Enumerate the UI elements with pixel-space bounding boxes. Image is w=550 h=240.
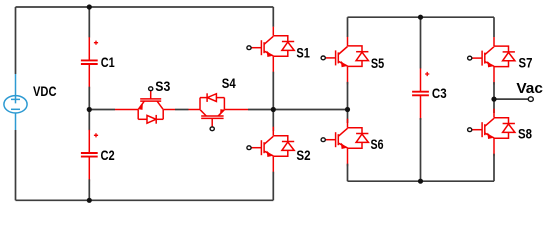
transistor S7 [468, 37, 515, 85]
wire: S4 to phase node [248, 109, 273, 111]
wire: C-leg top black [88, 7, 90, 38]
wire: C3 top black [420, 17, 422, 68]
wire: S7 source to Vac node [493, 82, 495, 99]
wire: S5 drain from top rail [347, 17, 349, 37]
wire: Vac output stub [494, 98, 528, 100]
svg-text:S7: S7 [519, 56, 533, 71]
wire: S6 source to bottom rail [347, 164, 349, 182]
node: S7/S8 Vac [491, 97, 496, 102]
wire: C-leg between C1 and mid node [88, 87, 90, 110]
node: bottom rail / C2 leg [87, 198, 92, 203]
wire: right section top rail [348, 16, 495, 18]
svg-text:S6: S6 [371, 137, 384, 152]
svg-text:Vac: Vac [516, 80, 543, 97]
svg-text:C2: C2 [101, 148, 115, 163]
node: S1/S2 phase [271, 107, 276, 112]
wire: mid node to S6 drain [347, 110, 349, 124]
node: bottom rail / C3 [418, 179, 423, 184]
node: top rail / C1 leg [87, 4, 92, 9]
svg-text:C1: C1 [101, 55, 115, 70]
svg-text:S5: S5 [371, 56, 385, 71]
wire: C-leg mid node to C2 [88, 110, 90, 131]
svg-text:S4: S4 [222, 76, 236, 91]
wire: right section bottom rail [348, 180, 495, 182]
transistor S3 [115, 87, 175, 124]
capacitor C2 [81, 130, 98, 182]
transistor S4 [189, 93, 249, 130]
wire: S5 source to mid node [347, 82, 349, 110]
wire: S1 drain from top rail [272, 7, 274, 27]
transistor S2 [247, 127, 294, 175]
wire: left leg lower (from VDC) [15, 130, 17, 200]
wire: left section top rail [16, 6, 274, 8]
svg-text:S1: S1 [296, 45, 310, 60]
wire: middle bus C-node to S3 [89, 109, 115, 111]
wire: S2 source to bottom rail [272, 172, 274, 201]
capacitor C1 [81, 37, 98, 88]
svg-text:VDC: VDC [33, 84, 57, 99]
wire: phase node to S2 drain [272, 110, 274, 132]
transistor S5 [321, 37, 368, 85]
wire: C-leg bottom black [88, 179, 90, 200]
transistor S6 [321, 119, 368, 167]
source VDC [4, 74, 27, 130]
node: top rail / C3 [418, 15, 423, 20]
wire: C3 bottom black [420, 118, 422, 181]
svg-text:S3: S3 [155, 79, 170, 94]
capacitor C3 [412, 69, 429, 121]
wire: left leg upper (to VDC) [15, 7, 17, 74]
wire: S8 source to bottom rail [493, 154, 495, 182]
svg-text:S8: S8 [518, 126, 532, 141]
wire: between S3 and S4 [175, 109, 189, 111]
node: S5/S6 midpoint [345, 107, 350, 112]
svg-text:C3: C3 [432, 86, 447, 101]
transistor S1 [247, 27, 294, 74]
wire: left section bottom rail [16, 199, 274, 201]
terminal Vac [528, 97, 533, 102]
svg-text:S2: S2 [296, 148, 310, 163]
wire: S7 drain from top rail [493, 17, 495, 37]
transistor S8 [468, 109, 515, 157]
wire: phase bus to H-bridge [273, 109, 347, 111]
wire: S1 source to phase node [272, 72, 274, 110]
node: capacitor midpoint [87, 107, 92, 112]
wire: Vac node to S8 drain [493, 99, 495, 113]
